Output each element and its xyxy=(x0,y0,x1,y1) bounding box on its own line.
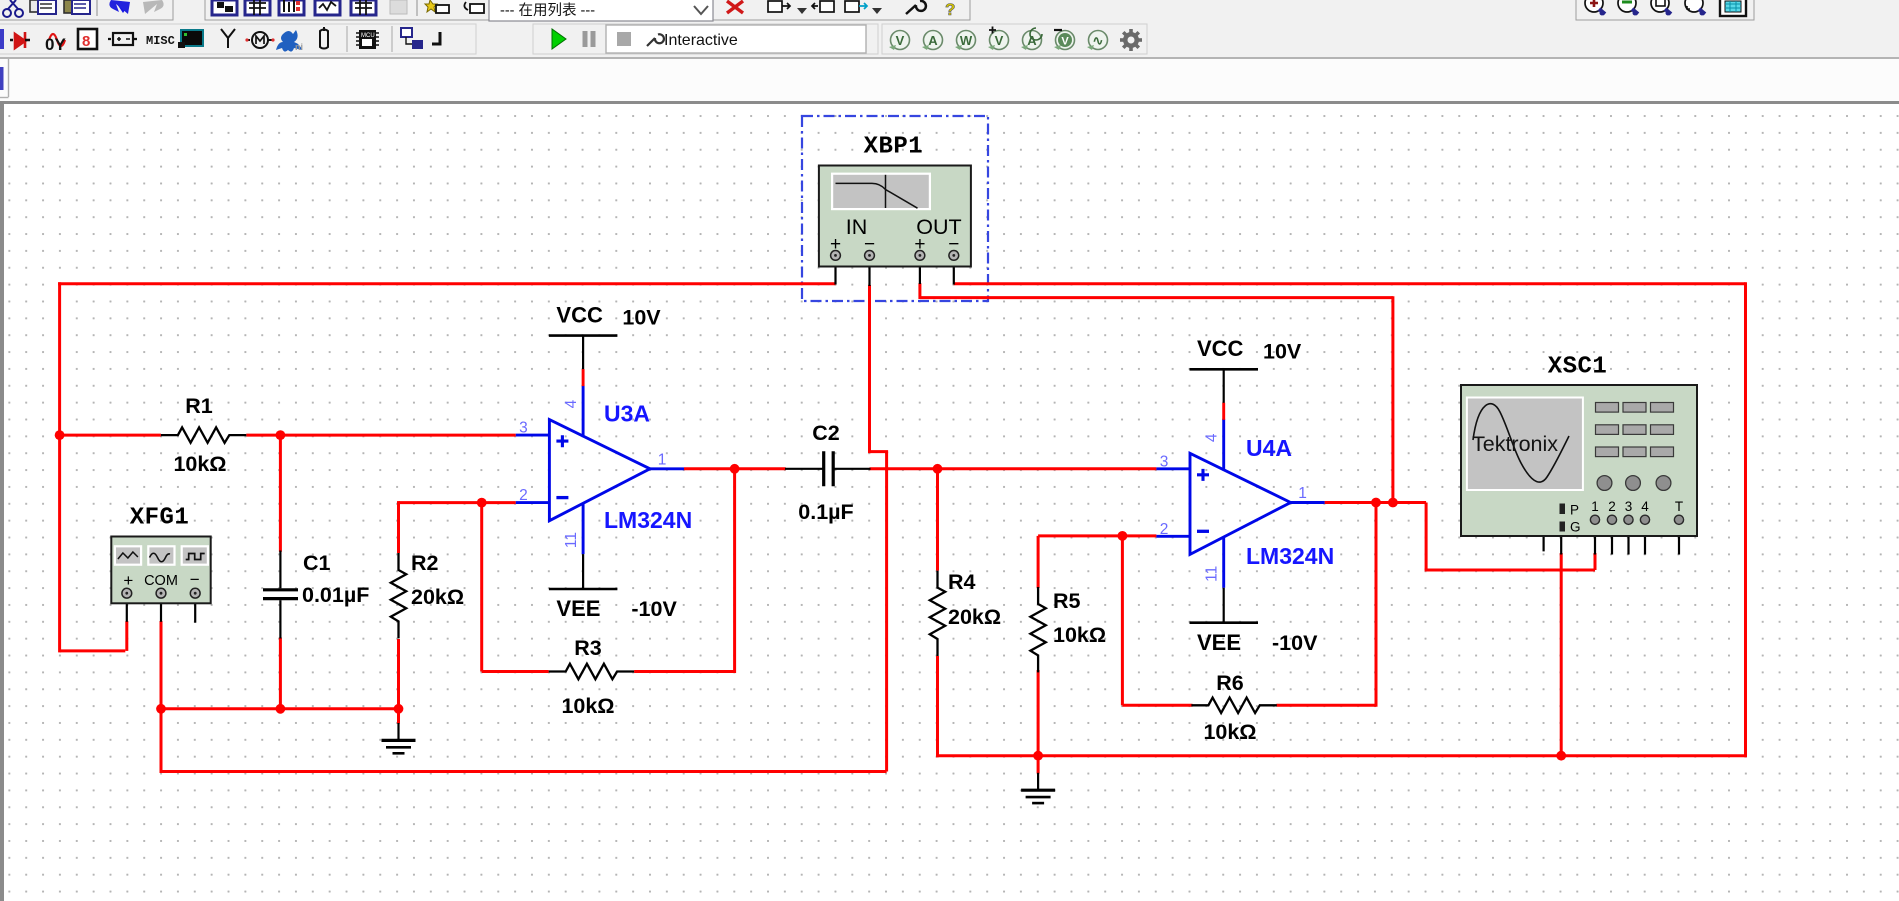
svg-text:C1: C1 xyxy=(303,551,331,575)
svg-text:2: 2 xyxy=(1160,521,1169,538)
svg-text:11: 11 xyxy=(563,532,580,548)
svg-text:R1: R1 xyxy=(185,394,213,418)
svg-text:10V: 10V xyxy=(622,306,661,330)
svg-text:3: 3 xyxy=(1160,453,1169,470)
svg-text:−: − xyxy=(190,570,200,589)
svg-text:Tektronix: Tektronix xyxy=(1472,432,1558,456)
svg-text:20kΩ: 20kΩ xyxy=(948,605,1001,629)
svg-text:2: 2 xyxy=(519,487,528,504)
svg-text:C2: C2 xyxy=(812,421,840,445)
svg-text:0.01µF: 0.01µF xyxy=(302,583,369,607)
svg-text:4: 4 xyxy=(1641,499,1649,514)
svg-text:0Y: 0Y xyxy=(45,35,66,54)
svg-text:10V: 10V xyxy=(1263,339,1302,363)
svg-text:MISC: MISC xyxy=(146,34,175,48)
svg-text:1: 1 xyxy=(1298,485,1307,502)
svg-text:U4A: U4A xyxy=(1246,435,1292,461)
svg-text:R4: R4 xyxy=(948,570,976,594)
svg-text:VCC: VCC xyxy=(556,302,603,327)
svg-text:--- 在用列表 ---: --- 在用列表 --- xyxy=(500,2,595,19)
svg-text:20kΩ: 20kΩ xyxy=(411,585,464,609)
svg-text:10kΩ: 10kΩ xyxy=(1053,623,1106,647)
svg-text:10kΩ: 10kΩ xyxy=(561,694,614,718)
svg-text:3: 3 xyxy=(519,420,528,437)
svg-text:+: + xyxy=(123,571,133,590)
svg-text:11: 11 xyxy=(1204,566,1221,582)
svg-text:LM324N: LM324N xyxy=(604,507,692,533)
svg-text:R5: R5 xyxy=(1053,589,1081,613)
svg-text:V: V xyxy=(896,33,905,48)
svg-text:T: T xyxy=(1675,499,1683,514)
svg-text:A: A xyxy=(928,33,938,48)
svg-text:10kΩ: 10kΩ xyxy=(173,452,226,476)
svg-text:R2: R2 xyxy=(411,551,439,575)
svg-text:XBP1: XBP1 xyxy=(864,133,924,160)
svg-text:Interactive: Interactive xyxy=(664,32,738,49)
svg-text:4: 4 xyxy=(1204,433,1221,442)
svg-text:1: 1 xyxy=(658,451,667,468)
svg-text:U3A: U3A xyxy=(604,401,650,427)
svg-text:XSC1: XSC1 xyxy=(1548,354,1608,381)
svg-text:∿: ∿ xyxy=(1093,33,1104,48)
svg-text:VCC: VCC xyxy=(1197,336,1244,361)
svg-text:?: ? xyxy=(945,0,955,19)
svg-text:XFG1: XFG1 xyxy=(130,505,190,532)
svg-text:4: 4 xyxy=(563,399,580,408)
svg-text:-10V: -10V xyxy=(631,597,677,621)
svg-text:V: V xyxy=(1061,36,1069,48)
svg-text:R6: R6 xyxy=(1216,671,1244,695)
svg-text:VEE: VEE xyxy=(556,596,600,621)
svg-text:COM: COM xyxy=(144,573,178,589)
svg-text:3: 3 xyxy=(1625,499,1633,514)
svg-text:1: 1 xyxy=(1591,499,1599,514)
svg-text:P: P xyxy=(1570,503,1579,518)
svg-text:V: V xyxy=(995,33,1004,48)
svg-text:8: 8 xyxy=(82,33,90,50)
svg-text:W: W xyxy=(960,33,973,48)
svg-text:0.1µF: 0.1µF xyxy=(798,500,853,524)
svg-text:G: G xyxy=(1570,520,1581,535)
svg-text:10kΩ: 10kΩ xyxy=(1203,720,1256,744)
svg-text:R3: R3 xyxy=(574,636,602,660)
svg-text:LM324N: LM324N xyxy=(1246,543,1334,569)
svg-text:MCU: MCU xyxy=(361,33,375,39)
svg-text:ni: ni xyxy=(295,42,303,52)
svg-text:2: 2 xyxy=(1608,499,1616,514)
svg-text:-10V: -10V xyxy=(1272,631,1318,655)
svg-text:VEE: VEE xyxy=(1197,630,1241,655)
